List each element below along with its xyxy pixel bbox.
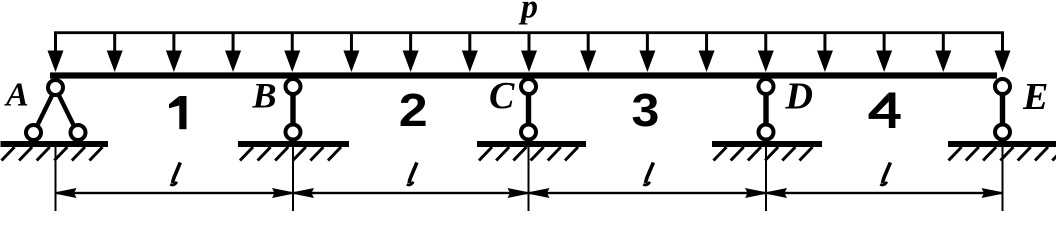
dimension label l span 4: [880, 163, 890, 185]
support C link: [526, 94, 531, 126]
svg-text:E: E: [1022, 76, 1048, 118]
dimension line span 2: [293, 188, 529, 198]
span number 4: [869, 93, 901, 129]
load arrow 9: [521, 33, 537, 72]
support B top hinge circle: [286, 79, 301, 94]
load arrow 4: [225, 33, 241, 72]
support C bottom circle: [521, 125, 536, 140]
load arrow 12: [699, 33, 715, 72]
support C top hinge circle: [521, 79, 536, 94]
support A right leg: [58, 94, 75, 128]
dimension label l span 2: [407, 163, 417, 185]
svg-text:3: 3: [632, 85, 660, 137]
ground hatching C: [479, 147, 578, 161]
support B link: [290, 94, 295, 126]
dimension line span 3: [529, 188, 767, 198]
ground hatching B: [240, 147, 341, 161]
svg-text:2: 2: [399, 86, 428, 137]
ground hatching E: [949, 147, 1056, 161]
dimension line span 1: [56, 188, 294, 198]
load arrow 13: [758, 33, 774, 72]
svg-text:D: D: [785, 76, 813, 118]
svg-text:A: A: [4, 77, 29, 114]
ground hatching D: [714, 147, 813, 161]
ground hatching A: [2, 147, 103, 161]
load arrow 7: [403, 33, 419, 72]
support D top hinge circle: [759, 79, 774, 94]
load arrow 11: [639, 33, 655, 72]
support D bottom circle: [759, 125, 774, 140]
extension line B: [292, 144, 294, 211]
ground line D: [712, 141, 822, 147]
support A hinge circle: [48, 80, 63, 95]
ground line A: [1, 141, 109, 147]
extension line A: [55, 144, 57, 211]
load arrow 17: [995, 33, 1011, 72]
support E link: [1000, 94, 1005, 126]
load arrow 8: [462, 33, 478, 72]
load arrow 15: [876, 33, 892, 72]
support E top hinge circle: [995, 79, 1010, 94]
load arrow 3: [166, 33, 182, 72]
load arrow 1: [48, 33, 64, 72]
distributed load line: [54, 31, 1004, 34]
load arrow 6: [343, 33, 359, 72]
ground line E: [948, 141, 1056, 147]
support A right base roller: [71, 125, 86, 140]
span number 1: [169, 96, 187, 129]
support E bottom circle: [995, 125, 1010, 140]
load arrow 2: [107, 33, 123, 72]
load arrow 10: [580, 33, 596, 72]
extension line D: [765, 144, 767, 211]
extension line E: [1002, 144, 1004, 211]
support A left base roller: [26, 125, 41, 140]
support B bottom circle: [286, 125, 301, 140]
svg-text:C: C: [489, 75, 515, 117]
load arrow 16: [935, 33, 951, 72]
svg-text:B: B: [252, 76, 277, 116]
svg-text:p: p: [518, 0, 538, 26]
load arrow 14: [817, 33, 833, 72]
support A left leg: [37, 94, 54, 128]
load arrow 5: [284, 33, 300, 72]
support D link: [763, 94, 768, 126]
ground line B: [238, 141, 349, 147]
ground line C: [477, 141, 586, 147]
extension line C: [528, 144, 530, 211]
dimension label l span 1: [170, 163, 180, 185]
dimension line span 4: [766, 188, 1003, 198]
beam: [50, 72, 997, 78]
dimension label l span 3: [643, 163, 653, 185]
